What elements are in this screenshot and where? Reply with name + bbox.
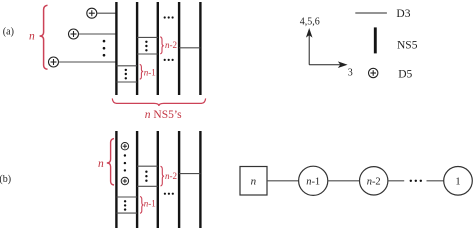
svg-text:n: n [29, 31, 35, 43]
quiver edge dots to circle 1 [427, 180, 444, 182]
D5 circle top (b) [121, 143, 128, 150]
brace n (a) [40, 5, 48, 69]
svg-text:n: n [98, 158, 104, 170]
dots between NS5 3-4 (b) [164, 193, 174, 195]
NS5 brane 5 (b) [199, 131, 201, 228]
quiver node circle n-2 [360, 167, 388, 195]
quiver node circle n-1 [299, 166, 328, 195]
svg-text:1: 1 [455, 176, 460, 187]
D3 rung bottom of n-1 ladder (b) [116, 212, 137, 214]
quiver node circle 1 [444, 167, 473, 196]
legend D5 symbol [369, 68, 378, 77]
D3 rung bottom of n-2 ladder (b) [137, 185, 158, 187]
D3 wire from D5 2 to NS5 1 (a) [79, 33, 117, 35]
NS5 brane 4 (b) [178, 131, 180, 228]
vertical dots between D5s (b) [124, 154, 126, 171]
D3 rung bottom of n-2 ladder (a) [137, 53, 158, 55]
NS5 brane 3 (a) [157, 2, 159, 95]
brace n-1 (b) [140, 197, 144, 214]
dots in n-2 ladder (a) [145, 41, 147, 52]
D3 rung top of n-2 ladder (b) [137, 165, 158, 167]
svg-text:n: n [251, 175, 257, 187]
svg-text:n-2: n-2 [165, 171, 177, 181]
NS5 brane 5 (a) [199, 2, 201, 95]
svg-text:4,5,6: 4,5,6 [300, 17, 320, 28]
legend D3 symbol [355, 12, 387, 14]
brace n-2 (b) [161, 166, 165, 186]
dots between NS5 3-4 bottom (a) [164, 59, 174, 61]
dots between NS5 3-4 top (a) [164, 16, 174, 18]
NS5 brane 4 (a) [178, 2, 180, 95]
dots in n-1 ladder (b) [124, 200, 126, 211]
D3 rung top of n-1 ladder (a) [116, 65, 137, 67]
NS5 brane 2 (b) [136, 131, 138, 228]
svg-text:D5: D5 [398, 68, 412, 80]
brace n (b) [107, 139, 114, 185]
D5 circle 1 (a) [87, 8, 97, 18]
bottom brace n NS5's (a) [112, 98, 205, 106]
dots in n-1 ladder (a) [125, 69, 127, 80]
D3 wire between NS5 4-5 (b) [179, 173, 200, 175]
dots in n-2 ladder (b) [145, 171, 147, 182]
brace n-1 (a) [140, 64, 143, 79]
NS5 brane 1 (b) [115, 131, 117, 228]
D5 circle 3 (a) [49, 57, 59, 67]
legend NS5 symbol [374, 27, 377, 53]
svg-text:n-2: n-2 [367, 177, 381, 188]
svg-text:NS5: NS5 [397, 39, 418, 51]
quiver edge n-2 to dots [388, 180, 404, 182]
svg-text:(a): (a) [3, 27, 14, 38]
NS5 brane 3 (b) [157, 131, 159, 228]
D3 rung top of n-1 ladder (b) [116, 196, 137, 198]
svg-text:D3: D3 [396, 8, 410, 20]
svg-text:n-1: n-1 [306, 177, 320, 188]
D3 wire from D5 3 to NS5 1 (a) [59, 61, 117, 63]
quiver ellipsis dots [410, 180, 422, 182]
svg-text:n NS5’s: n NS5’s [145, 109, 182, 121]
D5 circle 2 (a) [69, 29, 79, 39]
svg-text:n-1: n-1 [144, 67, 156, 77]
svg-text:n-2: n-2 [165, 40, 177, 50]
brace n-2 (a) [160, 37, 164, 54]
D3 rung bottom of n-1 ladder (a) [116, 81, 137, 83]
legend axis arrows [307, 30, 346, 68]
svg-text:3: 3 [348, 67, 353, 78]
NS5 brane 2 (a) [136, 2, 138, 95]
NS5 brane 1 (a) [115, 2, 117, 95]
vertical dots between D5 2 and D5 3 (a) [103, 40, 106, 57]
D3 wire between NS5 4-5 (a) [179, 47, 200, 49]
quiver edge n-1 to n-2 [328, 180, 360, 182]
D3 wire from D5 1 to NS5 1 (a) [97, 12, 117, 14]
D3 rung top of n-2 ladder (a) [137, 36, 158, 38]
svg-text:(b): (b) [0, 174, 11, 185]
quiver edge square to n-1 [267, 180, 299, 182]
quiver node square n [240, 167, 267, 196]
svg-text:n-1: n-1 [144, 199, 156, 209]
D5 circle bottom (b) [121, 177, 128, 184]
